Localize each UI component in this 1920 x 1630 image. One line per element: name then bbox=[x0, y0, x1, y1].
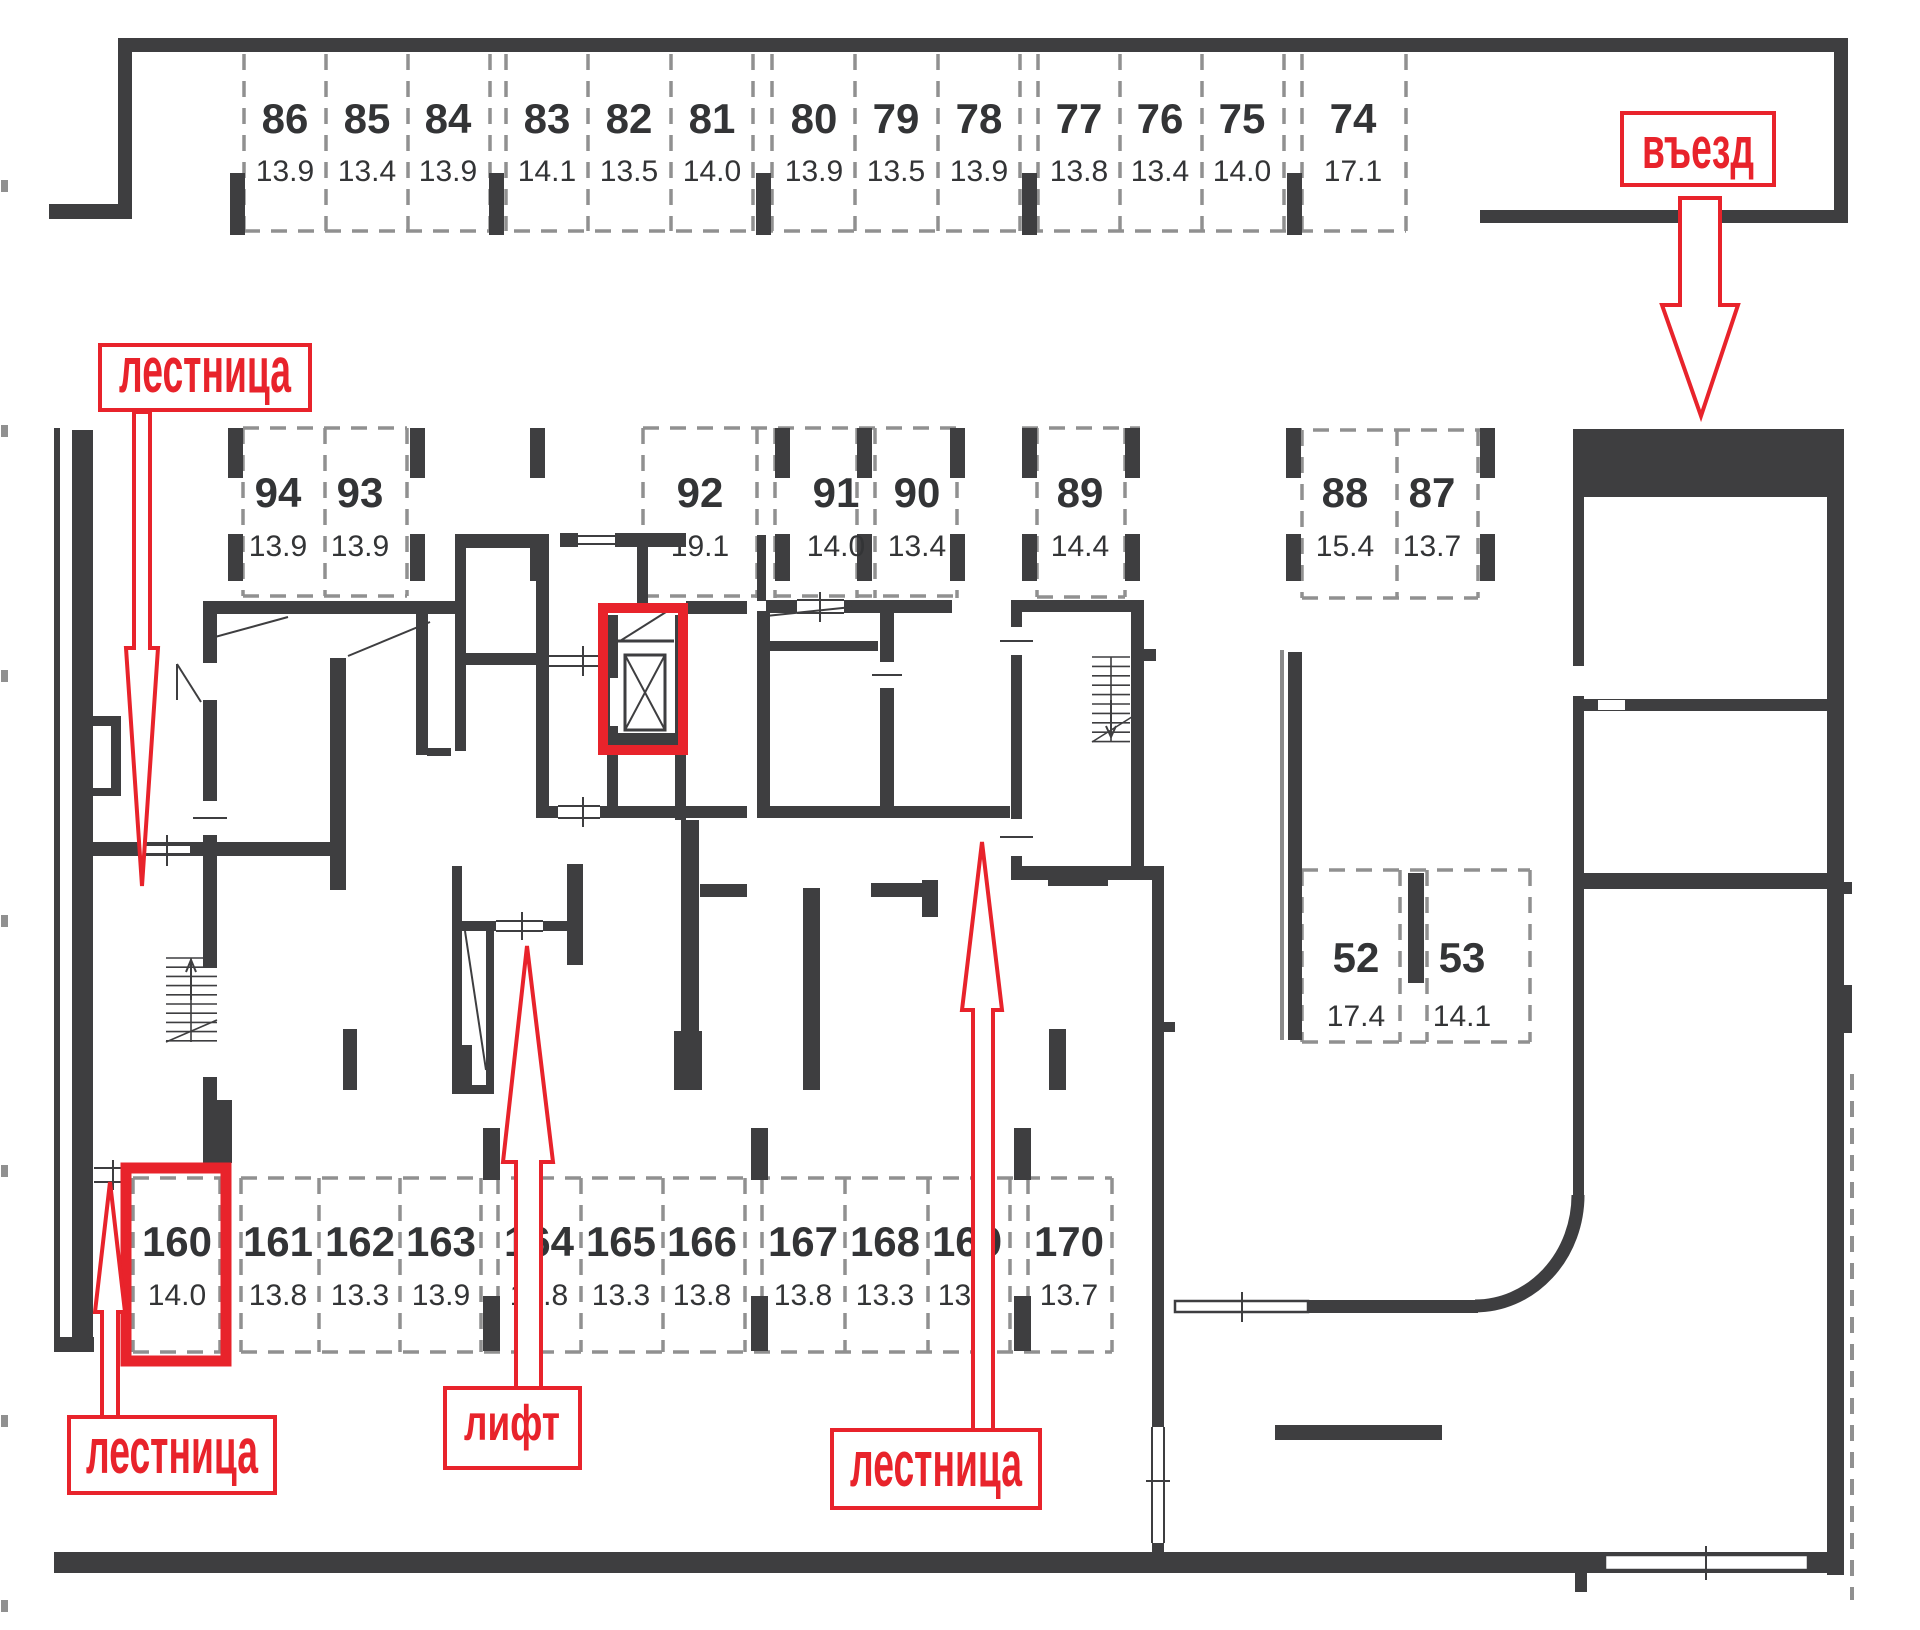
svg-text:75: 75 bbox=[1219, 95, 1266, 142]
svg-text:88: 88 bbox=[1322, 469, 1369, 516]
svg-text:13.9: 13.9 bbox=[785, 155, 843, 188]
svg-text:87: 87 bbox=[1409, 469, 1456, 516]
svg-text:14.0: 14.0 bbox=[807, 530, 865, 563]
svg-text:13.5: 13.5 bbox=[600, 155, 658, 188]
svg-text:13.9: 13.9 bbox=[419, 155, 477, 188]
svg-text:163: 163 bbox=[406, 1218, 476, 1265]
svg-text:13.8: 13.8 bbox=[673, 1279, 731, 1312]
svg-text:14.1: 14.1 bbox=[518, 155, 576, 188]
svg-text:13.3: 13.3 bbox=[856, 1279, 914, 1312]
svg-text:52: 52 bbox=[1333, 934, 1380, 981]
svg-text:14.0: 14.0 bbox=[148, 1279, 206, 1312]
svg-text:14.1: 14.1 bbox=[1433, 1000, 1491, 1033]
svg-text:81: 81 bbox=[689, 95, 736, 142]
svg-text:13.9: 13.9 bbox=[256, 155, 314, 188]
svg-text:89: 89 bbox=[1057, 469, 1104, 516]
svg-text:13.8: 13.8 bbox=[774, 1279, 832, 1312]
svg-text:лестница: лестница bbox=[850, 1428, 1022, 1500]
svg-text:13.4: 13.4 bbox=[338, 155, 396, 188]
svg-text:13.4: 13.4 bbox=[888, 530, 946, 563]
svg-text:74: 74 bbox=[1330, 95, 1377, 142]
svg-text:82: 82 bbox=[606, 95, 653, 142]
svg-text:83: 83 bbox=[524, 95, 571, 142]
svg-text:лестница: лестница bbox=[86, 1415, 258, 1487]
svg-text:166: 166 bbox=[667, 1218, 737, 1265]
svg-text:13.4: 13.4 bbox=[1131, 155, 1189, 188]
svg-text:77: 77 bbox=[1056, 95, 1103, 142]
svg-text:160: 160 bbox=[142, 1218, 212, 1265]
svg-text:85: 85 bbox=[344, 95, 391, 142]
svg-text:13.7: 13.7 bbox=[1403, 530, 1461, 563]
svg-text:лифт: лифт bbox=[464, 1395, 560, 1451]
svg-text:14.0: 14.0 bbox=[683, 155, 741, 188]
svg-text:въезд: въезд bbox=[1642, 116, 1754, 181]
svg-text:13.9: 13.9 bbox=[950, 155, 1008, 188]
svg-text:168: 168 bbox=[850, 1218, 920, 1265]
svg-text:170: 170 bbox=[1034, 1218, 1104, 1265]
svg-text:79: 79 bbox=[873, 95, 920, 142]
svg-text:78: 78 bbox=[956, 95, 1003, 142]
svg-text:161: 161 bbox=[243, 1218, 313, 1265]
svg-text:13.3: 13.3 bbox=[592, 1279, 650, 1312]
svg-text:14.0: 14.0 bbox=[1213, 155, 1271, 188]
svg-text:17.1: 17.1 bbox=[1324, 155, 1382, 188]
svg-text:165: 165 bbox=[586, 1218, 656, 1265]
svg-text:13.7: 13.7 bbox=[1040, 1279, 1098, 1312]
svg-text:53: 53 bbox=[1439, 934, 1486, 981]
svg-text:84: 84 bbox=[425, 95, 472, 142]
svg-text:167: 167 bbox=[768, 1218, 838, 1265]
svg-text:17.4: 17.4 bbox=[1327, 1000, 1385, 1033]
svg-text:76: 76 bbox=[1137, 95, 1184, 142]
svg-text:91: 91 bbox=[813, 469, 860, 516]
svg-text:13.5: 13.5 bbox=[867, 155, 925, 188]
svg-text:14.4: 14.4 bbox=[1051, 530, 1109, 563]
svg-text:94: 94 bbox=[255, 469, 302, 516]
svg-text:80: 80 bbox=[791, 95, 838, 142]
svg-text:90: 90 bbox=[894, 469, 941, 516]
svg-text:92: 92 bbox=[677, 469, 724, 516]
svg-text:13.8: 13.8 bbox=[1050, 155, 1108, 188]
svg-text:13.9: 13.9 bbox=[412, 1279, 470, 1312]
svg-text:лестница: лестница bbox=[119, 334, 291, 406]
svg-text:13.3: 13.3 bbox=[331, 1279, 389, 1312]
svg-text:13.8: 13.8 bbox=[249, 1279, 307, 1312]
svg-text:13.9: 13.9 bbox=[331, 530, 389, 563]
svg-text:13.9: 13.9 bbox=[249, 530, 307, 563]
svg-text:86: 86 bbox=[262, 95, 309, 142]
svg-text:162: 162 bbox=[325, 1218, 395, 1265]
svg-text:15.4: 15.4 bbox=[1316, 530, 1374, 563]
svg-text:93: 93 bbox=[337, 469, 384, 516]
